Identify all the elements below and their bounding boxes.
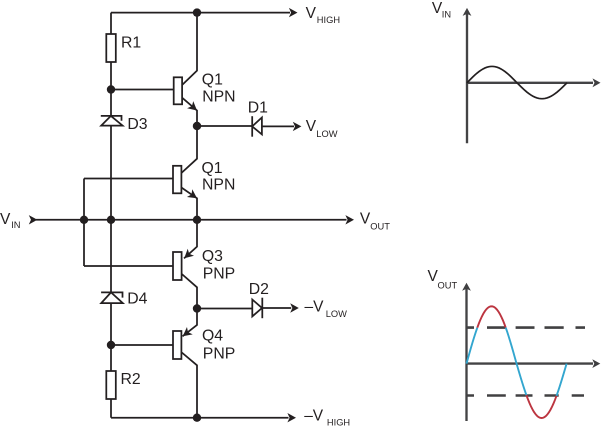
wire node to D2 [197, 308, 252, 310]
svg-text:PNP: PNP [203, 266, 235, 283]
wire Q1 top collector [182, 13, 197, 85]
svg-text:–V: –V [304, 407, 324, 424]
svg-text:IN: IN [11, 220, 20, 230]
wire R1 to D3 [110, 62, 112, 116]
wire base Q3 [84, 265, 173, 267]
emitter arrow Q4 [180, 327, 193, 340]
dashed clip line lower [467, 394, 584, 397]
wire Q1 middle collector [181, 126, 197, 173]
wire Q4 emitter [183, 309, 198, 337]
wire Q1 middle emitter [181, 188, 197, 220]
svg-text:PNP: PNP [203, 346, 235, 363]
wire D3 to VIN line [110, 126, 112, 220]
arrow y-axis VOUT [462, 283, 471, 291]
resistor R2 [106, 371, 116, 399]
curve VOUT red segment 1 [477, 306, 505, 327]
svg-text:NPN: NPN [202, 177, 235, 194]
svg-text:NPN: NPN [202, 88, 235, 105]
curve VIN sine [467, 66, 567, 98]
arrow VOUT [345, 215, 354, 224]
arrow VHIGH [289, 8, 298, 17]
junction dot R1 base node [107, 85, 115, 93]
graph VOUT axes [467, 287, 594, 422]
junction dot R2 base node [107, 341, 115, 349]
graph VIN axes [467, 12, 593, 144]
wire node to D1 [197, 125, 252, 127]
svg-text:R2: R2 [121, 371, 141, 388]
svg-text:Q3: Q3 [202, 248, 223, 265]
arrow x-axis VIN [593, 78, 601, 87]
junction dot VIN 2 [107, 216, 115, 224]
emitter arrow Q3 [181, 249, 194, 262]
svg-text:V: V [306, 5, 317, 22]
svg-text:D2: D2 [249, 281, 269, 298]
wire base Q1 top [111, 89, 174, 91]
junction dot VOUT node [193, 216, 201, 224]
svg-text:V: V [306, 118, 317, 135]
wire D4 to R2 node [110, 303, 112, 371]
wire VIN horizontal line [36, 219, 347, 221]
svg-text:HIGH: HIGH [327, 418, 350, 428]
svg-text:V: V [0, 211, 11, 228]
diode D3 (zener) [101, 116, 123, 126]
wire top rail [111, 12, 290, 14]
wire Q4 collector [182, 353, 197, 418]
curve VOUT blue segment 1 [467, 328, 478, 364]
resistor R1 [106, 34, 116, 62]
svg-text:Q1: Q1 [202, 72, 223, 89]
svg-text:R1: R1 [121, 34, 141, 51]
wire bottom rail [111, 417, 289, 419]
transistor Q4 base bar [173, 331, 181, 359]
x-axis VIN graph [467, 82, 593, 84]
junction dot top rail [193, 8, 201, 16]
diode D1 [252, 116, 294, 137]
wire Q1 top emitter [182, 98, 197, 126]
wire Q3 emitter [184, 220, 197, 259]
arrow y-axis VIN [463, 8, 472, 16]
emitter arrow Q1 middle [187, 189, 200, 202]
svg-text:Q4: Q4 [202, 328, 223, 345]
svg-text:D4: D4 [127, 291, 147, 308]
svg-text:D3: D3 [127, 116, 147, 133]
wire left trunk top to R1 [110, 13, 112, 34]
wire VIN line to D4 [110, 220, 112, 293]
wire R2 to bottom rail [110, 399, 112, 418]
svg-text:LOW: LOW [326, 309, 347, 319]
svg-text:OUT: OUT [370, 222, 390, 232]
arrow VIN input [29, 215, 38, 224]
arrow -VLOW [290, 303, 299, 312]
dashed clip line upper [467, 326, 585, 329]
wire left branch vertical [83, 179, 85, 267]
emitter arrow Q1 top [187, 101, 200, 114]
svg-text:IN: IN [442, 10, 451, 20]
arrow -VHIGH [287, 413, 296, 422]
curve VOUT red segment 2 [526, 395, 556, 418]
junction dot VIN 1 [80, 216, 88, 224]
curve VOUT blue segment 2 [506, 328, 527, 396]
curve VOUT blue segment 3 [557, 364, 567, 396]
y-axis VOUT graph [465, 287, 467, 422]
wire base Q4 [111, 344, 173, 346]
wire Q3 collector [182, 274, 197, 309]
svg-text:OUT: OUT [438, 281, 458, 291]
x-axis VOUT graph [467, 362, 594, 364]
arrow x-axis VOUT [592, 359, 600, 368]
junction dot D2 node [193, 304, 201, 312]
svg-text:Q1: Q1 [202, 160, 223, 177]
arrow VLOW [293, 122, 302, 131]
diode D4 (zener) [101, 292, 123, 303]
svg-text:HIGH: HIGH [317, 15, 340, 25]
y-axis VIN graph [466, 12, 468, 144]
junction dot bottom rail [193, 414, 201, 422]
svg-text:V: V [360, 211, 371, 228]
transistor Q1 middle base bar [173, 166, 181, 194]
junction dot D1 node [193, 122, 201, 130]
svg-text:LOW: LOW [316, 129, 337, 139]
wire base Q1 middle [84, 178, 173, 180]
diode D2 [252, 298, 291, 319]
transistor Q3 base bar [173, 252, 182, 280]
svg-text:–V: –V [305, 298, 325, 315]
transistor Q1 top base bar [174, 77, 182, 104]
svg-text:D1: D1 [248, 99, 268, 116]
